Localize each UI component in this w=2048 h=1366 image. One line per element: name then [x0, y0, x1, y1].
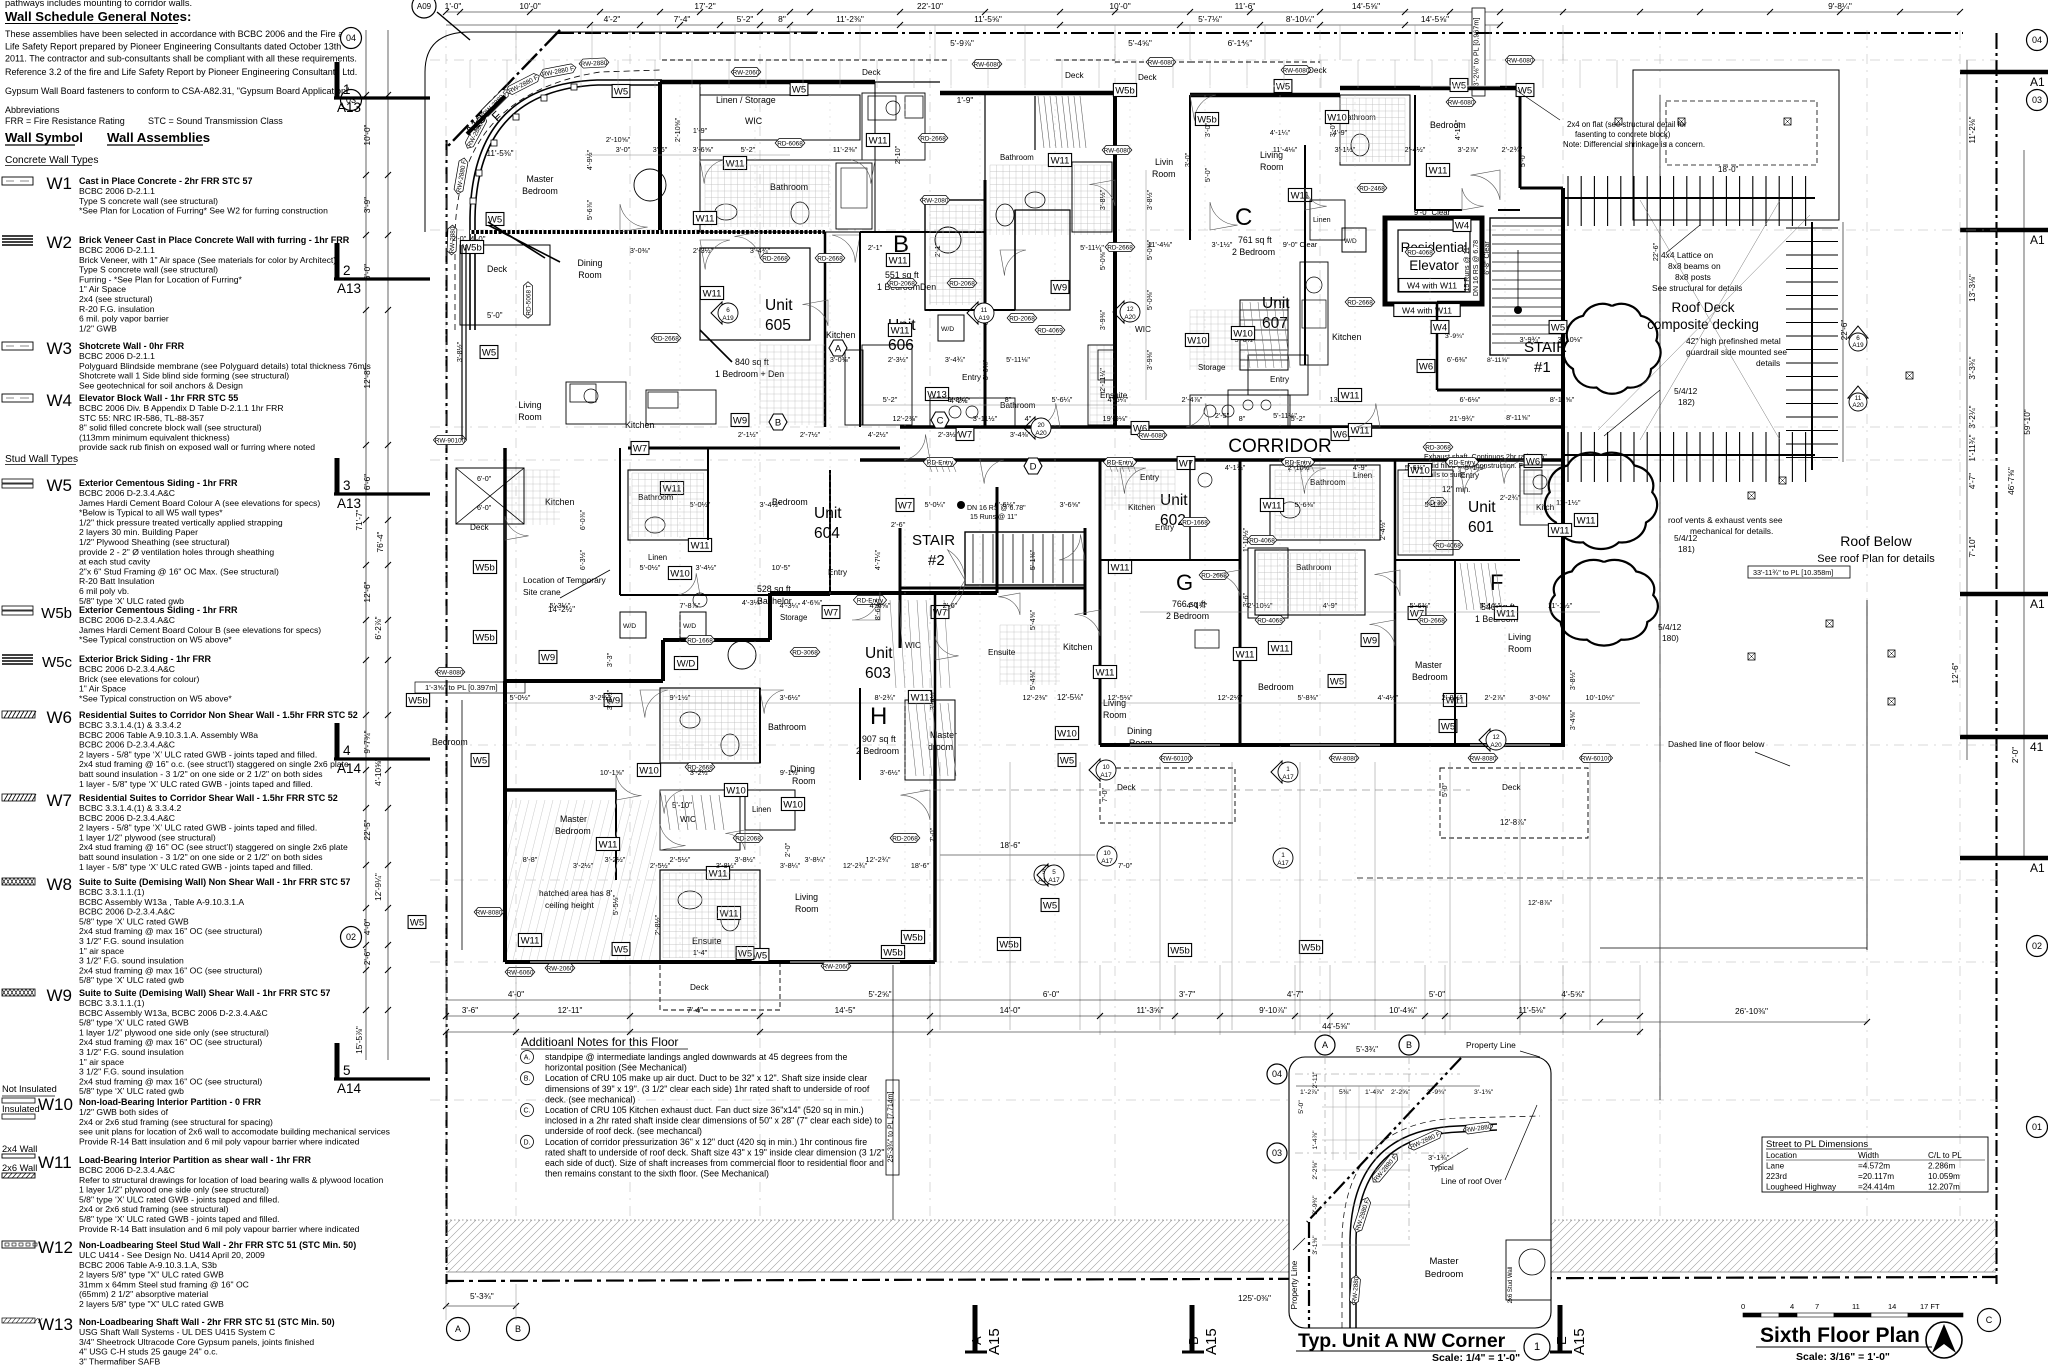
svg-text:2'-3½": 2'-3½"	[938, 430, 959, 439]
svg-text:R-20 F.G. insulation: R-20 F.G. insulation	[79, 304, 155, 314]
section marker 2/A13 left	[334, 243, 430, 296]
wall type W6	[2, 711, 36, 718]
svg-text:2x4 stud framing @ max 16" OC: 2x4 stud framing @ max 16" OC (see struc…	[79, 1076, 262, 1086]
svg-text:10.059m: 10.059m	[1928, 1172, 1960, 1181]
svg-text:BCBC 2006 D-2.3.4.A&C: BCBC 2006 D-2.3.4.A&C	[79, 740, 175, 750]
svg-text:W7: W7	[1179, 458, 1193, 469]
svg-text:W5: W5	[753, 950, 767, 961]
svg-text:RW-8080: RW-8080	[1470, 755, 1497, 762]
svg-text:A17: A17	[1048, 877, 1060, 884]
street to PL dimensions table	[1762, 1137, 1988, 1192]
svg-text:4'-2½": 4'-2½"	[950, 396, 971, 405]
svg-text:W11: W11	[1263, 500, 1282, 511]
svg-text:fasenting to concrete block): fasenting to concrete block)	[1575, 130, 1671, 139]
svg-text:Additioanl Notes for this Floo: Additioanl Notes for this Floor	[521, 1035, 678, 1049]
extra W boxes round 2	[693, 212, 716, 225]
svg-text:W10: W10	[783, 799, 803, 810]
svg-text:W10: W10	[1327, 112, 1347, 123]
svg-text:1'-3⅝" to PL [0.397m]: 1'-3⅝" to PL [0.397m]	[425, 683, 498, 692]
svg-text:W10: W10	[639, 765, 659, 776]
svg-text:B.: B.	[524, 1076, 531, 1083]
svg-text:Lougheed Highway: Lougheed Highway	[1766, 1183, 1837, 1192]
unit 603 stepped walls	[504, 679, 663, 683]
svg-text:5'-4⅝": 5'-4⅝"	[1028, 609, 1037, 630]
section marker 1/A13 left	[334, 62, 430, 115]
bottom witness lines	[445, 965, 447, 1035]
linen/storage walls	[658, 82, 662, 232]
closet hatch lines WIC	[1038, 96, 1044, 148]
svg-text:Non-Loadbearing Shaft Wall - 2: Non-Loadbearing Shaft Wall - 2hr FRR STC…	[79, 1317, 335, 1327]
svg-text:2 Bedroom: 2 Bedroom	[856, 746, 899, 756]
svg-text:Not Insulated: Not Insulated	[2, 1084, 57, 1094]
svg-text:2'-3½": 2'-3½"	[693, 246, 714, 255]
scale bar	[1743, 1313, 1761, 1317]
svg-text:BCBC 2006 Table A-9.10.3.1.A,: BCBC 2006 Table A-9.10.3.1.A, S3b	[79, 1260, 217, 1270]
svg-text:10'-5": 10'-5"	[772, 563, 791, 572]
svg-text:A: A	[455, 1324, 461, 1334]
svg-text:BCBC 2006 D-2.3.4.A&C: BCBC 2006 D-2.3.4.A&C	[79, 615, 175, 625]
svg-text:7'-8⅞": 7'-8⅞"	[680, 601, 701, 610]
svg-text:5'-0": 5'-0"	[1518, 152, 1527, 167]
svg-text:1 layer 1/2" plywood one side: 1 layer 1/2" plywood one side only (see …	[79, 1185, 269, 1195]
svg-text:22'-10": 22'-10"	[917, 1, 943, 11]
svg-text:W10: W10	[1057, 728, 1077, 739]
detail dashed roof line	[1342, 1116, 1540, 1328]
svg-text:W10: W10	[726, 785, 746, 796]
svg-text:6'-6⅜": 6'-6⅜"	[1447, 355, 1468, 364]
svg-text:W/D: W/D	[941, 326, 954, 333]
svg-text:6 mil. poly vapor barrier: 6 mil. poly vapor barrier	[79, 314, 169, 324]
svg-text:Entry: Entry	[1460, 471, 1480, 480]
grid bubble 01 right	[2027, 1117, 2048, 1138]
svg-text:A15: A15	[986, 1328, 1003, 1355]
svg-text:Bedroom: Bedroom	[1258, 682, 1294, 692]
bottom dimension lines	[446, 999, 1640, 1001]
svg-text:15 Runs @ 11": 15 Runs @ 11"	[1464, 244, 1471, 291]
svg-text:A: A	[969, 1336, 984, 1345]
svg-text:Kitchen: Kitchen	[545, 497, 574, 507]
svg-text:A1: A1	[2030, 597, 2045, 611]
svg-text:22'-6": 22'-6"	[1840, 320, 1849, 341]
svg-text:A13: A13	[337, 100, 361, 115]
ensuite lower	[660, 870, 760, 962]
svg-text:RD-4068: RD-4068	[1249, 537, 1275, 544]
svg-text:RD-2068: RD-2068	[1009, 315, 1035, 322]
svg-text:12'-2¾": 12'-2¾"	[866, 855, 891, 864]
svg-text:Deck: Deck	[1502, 783, 1522, 792]
svg-text:Non-load-Bearing Interior Part: Non-load-Bearing Interior Partition - 0 …	[79, 1097, 262, 1107]
svg-text:5/8" type ‘X’ ULC rated gwb: 5/8" type ‘X’ ULC rated gwb	[79, 975, 184, 985]
svg-text:STC = Sound Transmission Class: STC = Sound Transmission Class	[148, 116, 283, 126]
svg-text:W4: W4	[1433, 322, 1447, 333]
note C.	[521, 1104, 534, 1117]
unit C kitchen counter strip	[1300, 262, 1328, 365]
wall type W5	[2, 479, 33, 488]
svg-text:A20: A20	[1035, 430, 1047, 437]
svg-text:RD-2668: RD-2668	[1107, 244, 1133, 251]
svg-text:RW-6080: RW-6080	[1148, 59, 1175, 66]
svg-text:Non-Loadbearing Steel Stud Wal: Non-Loadbearing Steel Stud Wall - 2hr FR…	[79, 1240, 356, 1250]
svg-text:3'-8½": 3'-8½"	[1098, 189, 1107, 210]
svg-text:C: C	[1986, 1315, 1993, 1325]
stair 2	[965, 532, 1085, 585]
grid bubble 02 left	[341, 927, 362, 948]
svg-text:A13: A13	[337, 281, 361, 296]
svg-text:RW-6080: RW-6080	[1507, 57, 1534, 64]
svg-text:2'-11": 2'-11"	[1312, 1071, 1319, 1088]
wall type W5c	[2, 655, 33, 664]
svg-text:BCBC Assembly W13a , Table A-9: BCBC Assembly W13a , Table A-9.10.3.1.A	[79, 897, 244, 907]
svg-text:RW-6060: RW-6060	[507, 969, 534, 976]
svg-text:7'-10": 7'-10"	[1968, 536, 1977, 557]
svg-text:W11: W11	[1111, 562, 1130, 573]
svg-text:Entry: Entry	[1140, 473, 1160, 482]
svg-text:4'-2": 4'-2"	[604, 14, 621, 24]
svg-text:6'-6⅛": 6'-6⅛"	[1460, 395, 1481, 404]
svg-text:3'-1⅜": 3'-1⅜"	[1312, 1235, 1319, 1255]
svg-text:1" air space: 1" air space	[79, 946, 124, 956]
svg-text:9'-8¼": 9'-8¼"	[1828, 1, 1852, 11]
svg-text:W11: W11	[1096, 667, 1115, 678]
svg-text:WIC: WIC	[745, 116, 763, 126]
svg-text:31mm x 64mm Steel stud framing: 31mm x 64mm Steel stud framing @ 16" OC	[79, 1279, 249, 1289]
svg-text:Exterior Cementous Siding - 1h: Exterior Cementous Siding - 1hr FRR	[79, 478, 238, 488]
svg-text:W11: W11	[38, 1153, 72, 1172]
svg-text:W5: W5	[792, 84, 806, 95]
wic lower	[660, 790, 740, 850]
svg-text:(113mm minimum equivalent thic: (113mm minimum equivalent thickness)	[79, 432, 230, 442]
svg-text:3/4" Sheetrock Ultracode Core: 3/4" Sheetrock Ultracode Core Gypsum pan…	[79, 1337, 314, 1347]
svg-text:RW-6080: RW-6080	[1139, 432, 1166, 439]
svg-text:3 1/2" F.G. sound insulation: 3 1/2" F.G. sound insulation	[79, 1047, 184, 1057]
wall type W8	[2, 878, 35, 885]
svg-text:RW-90100: RW-90100	[435, 437, 466, 444]
svg-text:Provide R-14 Batt insulation a: Provide R-14 Batt insulation and 6 mil p…	[79, 1136, 360, 1146]
svg-text:W5b: W5b	[1301, 942, 1321, 953]
leader line dining	[488, 225, 560, 262]
svg-text:Dining: Dining	[578, 258, 603, 268]
svg-text:6'-0": 6'-0"	[477, 503, 492, 512]
svg-text:W11: W11	[891, 325, 910, 336]
svg-text:RD-2668: RD-2668	[817, 255, 843, 262]
svg-text:A: A	[835, 344, 842, 355]
left dimension chain lines	[365, 30, 367, 1060]
svg-text:Wall Symbol: Wall Symbol	[5, 130, 83, 145]
svg-text:2x4 stud framing @ 16" OC (see: 2x4 stud framing @ 16" OC (see struct’l)…	[79, 842, 348, 852]
svg-text:14'-0": 14'-0"	[1000, 1006, 1021, 1015]
svg-text:RD-4069: RD-4069	[1037, 327, 1063, 334]
detail rounded rect outline	[1289, 1057, 1551, 1328]
wall mid horizontal units row1	[860, 231, 985, 233]
svg-text:4'-10⅝": 4'-10⅝"	[374, 758, 383, 786]
unit 603 bathroom	[660, 688, 760, 763]
svg-text:5'-6¼": 5'-6¼"	[1052, 395, 1073, 404]
svg-text:10'-0": 10'-0"	[1109, 1, 1130, 11]
svg-text:4'-4½": 4'-4½"	[1378, 693, 1399, 702]
svg-text:Living: Living	[795, 892, 818, 902]
svg-text:A20: A20	[1124, 314, 1136, 321]
svg-text:R-20 Batt Insulation: R-20 Batt Insulation	[79, 576, 155, 586]
svg-text:A1: A1	[2030, 75, 2045, 89]
svg-text:6: 6	[1856, 335, 1860, 342]
deck circle markers right	[1848, 326, 1868, 351]
svg-text:3'-0": 3'-0"	[1183, 152, 1192, 167]
hatched 8ft ceiling area	[465, 800, 721, 960]
svg-text:12'-5⅛": 12'-5⅛"	[1057, 693, 1084, 702]
svg-text:W11: W11	[709, 868, 728, 879]
svg-text:4" USG C-H studs 25 gauge 24": 4" USG C-H studs 25 gauge 24" o.c.	[79, 1347, 218, 1357]
svg-text:RW-8080: RW-8080	[476, 909, 503, 916]
svg-text:3'-8½": 3'-8½"	[455, 341, 464, 362]
svg-text:W9: W9	[733, 415, 747, 426]
svg-text:2'-8½": 2'-8½"	[653, 914, 662, 935]
section hex letter markers	[829, 340, 847, 356]
svg-text:6'-6": 6'-6"	[363, 474, 372, 490]
svg-text:840 sq ft: 840 sq ft	[735, 357, 769, 367]
svg-text:2 layers 5/8" type "X" ULC rat: 2 layers 5/8" type "X" ULC rated GWB	[79, 1299, 224, 1309]
svg-text:8'-6½": 8'-6½"	[873, 599, 882, 620]
svg-text:5⅜": 5⅜"	[1339, 1089, 1351, 1096]
svg-text:W6: W6	[1333, 429, 1347, 440]
svg-text:18'-6": 18'-6"	[1000, 841, 1021, 850]
svg-text:4'-9": 4'-9"	[1333, 128, 1348, 137]
kitchen B counters	[845, 350, 863, 425]
svg-text:8": 8"	[1005, 395, 1012, 404]
svg-text:4'-7": 4'-7"	[1968, 473, 1977, 489]
svg-text:BCBC 3.3.1.1.(1): BCBC 3.3.1.1.(1)	[79, 887, 145, 897]
svg-text:2: 2	[343, 263, 351, 278]
svg-text:Gypsum Wall Board fasteners to: Gypsum Wall Board fasteners to conform t…	[5, 86, 349, 96]
svg-text:A17: A17	[1100, 772, 1112, 779]
svg-text:5'-3¾": 5'-3¾"	[470, 1291, 494, 1301]
svg-text:Roof Deck: Roof Deck	[1671, 300, 1734, 315]
wall type W9	[2, 989, 35, 996]
svg-text:6 mil poly vb.: 6 mil poly vb.	[79, 586, 129, 596]
svg-text:RD-2668: RD-2668	[653, 335, 679, 342]
svg-text:7'-4": 7'-4"	[674, 14, 691, 24]
svg-text:44'-5⅝": 44'-5⅝"	[1322, 1022, 1350, 1031]
svg-text:Exterior Brick Siding - 1hr FR: Exterior Brick Siding - 1hr FRR	[79, 654, 212, 664]
svg-text:RW-6080: RW-6080	[1448, 99, 1475, 106]
svg-text:4'-1¾": 4'-1¾"	[1187, 601, 1208, 610]
svg-text:59'-10": 59'-10"	[2023, 409, 2032, 435]
svg-text:761 sq ft: 761 sq ft	[1238, 235, 1272, 245]
svg-text:W5: W5	[410, 917, 424, 928]
svg-text:W3: W3	[47, 339, 73, 358]
svg-text:RD-2668: RD-2668	[1419, 617, 1445, 624]
svg-text:W5: W5	[1043, 900, 1057, 911]
svg-text:2'-7½": 2'-7½"	[800, 430, 821, 439]
svg-text:Kitchen: Kitchen	[1128, 503, 1156, 512]
svg-text:3'-9⅜": 3'-9⅜"	[1145, 349, 1154, 370]
svg-text:deck. (see mechanical): deck. (see mechanical)	[545, 1094, 636, 1104]
svg-text:RW-6080: RW-6080	[1104, 147, 1131, 154]
svg-text:Reference 3.2 of the fire and: Reference 3.2 of the fire and Life Safet…	[5, 67, 357, 77]
detail property line vertical	[1308, 1222, 1310, 1328]
svg-text:batt sound insulation - 3 1/2": batt sound insulation - 3 1/2" on one si…	[79, 852, 323, 862]
svg-text:2'-4⅞": 2'-4⅞"	[1182, 395, 1203, 404]
svg-text:1'-11¾": 1'-11¾"	[1968, 434, 1977, 461]
svg-text:12'-2⅛": 12'-2⅛"	[1218, 693, 1243, 702]
svg-text:STC 55: NRC IR-586, TL-88-357: STC 55: NRC IR-586, TL-88-357	[79, 413, 204, 423]
svg-text:76'-4": 76'-4"	[376, 531, 385, 552]
svg-text:Suite to Suite (Demising Wall): Suite to Suite (Demising Wall) Shear Wal…	[79, 988, 330, 998]
detail number circle	[1524, 1334, 1550, 1360]
property line top-left diagonal	[447, 30, 560, 147]
svg-text:RD-5068 T: RD-5068 T	[525, 284, 532, 315]
svg-text:8": 8"	[1239, 414, 1246, 423]
svg-text:2x4 Wall: 2x4 Wall	[2, 1144, 37, 1154]
svg-text:A: A	[1322, 1040, 1328, 1050]
svg-text:STAIR: STAIR	[912, 532, 955, 549]
svg-text:12'-9¼": 12'-9¼"	[374, 873, 383, 901]
svg-text:606: 606	[888, 337, 914, 354]
svg-text:3'-1½": 3'-1½"	[1335, 145, 1356, 154]
svg-text:5'-1⅞": 5'-1⅞"	[1480, 601, 1501, 610]
svg-text:composite decking: composite decking	[1647, 317, 1759, 332]
svg-text:5'-4⅝": 5'-4⅝"	[1128, 38, 1152, 48]
svg-text:See geotechnical for soil anch: See geotechnical for soil anchors & Desi…	[79, 380, 243, 390]
svg-text:RW-2060: RW-2060	[547, 965, 574, 972]
top dimension lines	[446, 11, 1960, 13]
svg-text:RW-2060: RW-2060	[733, 69, 760, 76]
svg-text:2011. The contractor and sub-c: 2011. The contractor and sub-consultants…	[5, 54, 357, 64]
svg-text:5'-2⅝": 5'-2⅝"	[868, 990, 891, 999]
small vent squares	[1615, 118, 1622, 125]
corridor top wall	[900, 425, 1563, 429]
svg-text:10'-0": 10'-0"	[519, 1, 540, 11]
svg-text:rated shaft to underside of ro: rated shaft to underside of roof deck. S…	[545, 1147, 884, 1157]
svg-text:Linen / Storage: Linen / Storage	[716, 95, 776, 105]
svg-text:8'-10¼": 8'-10¼"	[1286, 14, 1314, 24]
svg-text:10: 10	[1103, 850, 1111, 857]
svg-text:Scale: 1/4" = 1'-0": Scale: 1/4" = 1'-0"	[1432, 1352, 1520, 1364]
deck rail dashed top unit B	[830, 59, 950, 61]
svg-text:Elevator Block Wall - 1hr FRR: Elevator Block Wall - 1hr FRR STC 55	[79, 393, 238, 403]
svg-text:7'-0": 7'-0"	[1102, 788, 1109, 802]
svg-text:(65mm) 2 1/2" absorptive mater: (65mm) 2 1/2" absorptive material	[79, 1289, 208, 1299]
wall type W13	[2, 1318, 35, 1323]
svg-text:1 layer 1/2" plywood (see stru: 1 layer 1/2" plywood (see structural)	[79, 832, 216, 842]
extra walls unit 601	[1395, 559, 1520, 561]
svg-text:Load-Bearing Interior Partitio: Load-Bearing Interior Partition as shear…	[79, 1155, 312, 1165]
svg-text:3'-6⅝": 3'-6⅝"	[1060, 500, 1081, 509]
svg-text:3'-6½": 3'-6½"	[880, 768, 901, 777]
svg-text:3: 3	[343, 478, 351, 493]
svg-text:W6: W6	[1419, 361, 1433, 372]
svg-text:3 1/2" F.G. sound insulation: 3 1/2" F.G. sound insulation	[79, 936, 184, 946]
curved window wall NW corner	[470, 80, 662, 330]
svg-text:14'-5": 14'-5"	[835, 1006, 856, 1015]
svg-text:5'-2": 5'-2"	[741, 145, 756, 154]
svg-text:5'-6⅜": 5'-6⅜"	[1405, 463, 1426, 472]
extra walls unit C	[1304, 145, 1306, 365]
svg-text:RW-6080: RW-6080	[1283, 67, 1310, 74]
svg-text:BCBC 2006 Table A.9.10.3.1.A.: BCBC 2006 Table A.9.10.3.1.A. Assembly W…	[79, 730, 258, 740]
svg-text:BCBC 2006 D-2.3.4.A&C: BCBC 2006 D-2.3.4.A&C	[79, 907, 175, 917]
building face dashed NW curve	[455, 70, 660, 330]
small sink circles	[886, 101, 900, 115]
svg-text:Abbreviations: Abbreviations	[5, 105, 60, 115]
svg-text:2'-0": 2'-0"	[783, 842, 792, 857]
svg-text:10'-1⅝": 10'-1⅝"	[600, 768, 625, 777]
svg-text:11'-2⅜": 11'-2⅜"	[836, 14, 864, 24]
extra walls unit 604	[619, 448, 621, 470]
stair1 lower walls	[1437, 301, 1482, 304]
svg-text:3'-10⅛": 3'-10⅛"	[1558, 335, 1583, 344]
svg-text:125'-0⅜": 125'-0⅜"	[1238, 1293, 1271, 1303]
svg-text:droom: droom	[928, 742, 953, 752]
svg-text:17'-2": 17'-2"	[694, 1, 715, 11]
svg-text:3'-3": 3'-3"	[605, 652, 614, 667]
svg-text:3'-6½": 3'-6½"	[780, 693, 801, 702]
svg-text:C.: C.	[524, 1108, 531, 1115]
svg-text:Linen: Linen	[1353, 471, 1372, 480]
svg-text:3'-2½": 3'-2½"	[605, 855, 626, 864]
svg-text:Type S concrete wall (see stru: Type S concrete wall (see structural)	[79, 196, 218, 206]
svg-text:5'-5½": 5'-5½"	[611, 894, 620, 915]
unit B bath cluster	[990, 165, 1110, 235]
svg-text:12'-8⅞": 12'-8⅞"	[1500, 818, 1527, 827]
svg-text:5'-8⅜": 5'-8⅜"	[1298, 693, 1319, 702]
elevator shaft	[1385, 218, 1482, 304]
svg-text:A19: A19	[722, 315, 734, 322]
unit 604 walls	[503, 448, 507, 681]
svg-text:2x4 stud framing @ max 16" OC: 2x4 stud framing @ max 16" OC (see struc…	[79, 926, 262, 936]
svg-text:Provide R-14 Batt insulation a: Provide R-14 Batt insulation and 6 mil p…	[79, 1224, 360, 1234]
svg-text:W5: W5	[473, 755, 487, 766]
svg-text:1 layer - 5/8" type ‘X’ ULC ra: 1 layer - 5/8" type ‘X’ ULC rated GWB - …	[79, 862, 313, 872]
svg-text:Furring - *See Plan for Locati: Furring - *See Plan for Location of Furr…	[79, 274, 243, 284]
svg-text:Unit: Unit	[1468, 499, 1496, 516]
svg-text:22'-6": 22'-6"	[1651, 242, 1660, 261]
svg-text:Exterior Cementous Siding - 1h: Exterior Cementous Siding - 1hr FRR	[79, 605, 238, 615]
svg-text:inclosed in a 2hr rated shaft: inclosed in a 2hr rated shaft inside cle…	[545, 1116, 882, 1126]
grid bubble A09 top left	[412, 0, 436, 18]
svg-text:Deck: Deck	[690, 983, 710, 992]
svg-text:11'-6": 11'-6"	[1235, 1, 1256, 11]
svg-text:W5b: W5b	[1115, 85, 1135, 96]
svg-text:Location: Location	[1766, 1151, 1797, 1160]
svg-text:25'-3¾" to PL [7.714m]: 25'-3¾" to PL [7.714m]	[888, 1092, 895, 1163]
grid bubble C bottom right	[1978, 1309, 2001, 1332]
svg-text:4'-9": 4'-9"	[1323, 601, 1338, 610]
svg-text:W5: W5	[1060, 755, 1074, 766]
svg-text:5'-1⅞": 5'-1⅞"	[1465, 463, 1486, 472]
svg-text:2 layers - 5/8" type ‘X’ ULC r: 2 layers - 5/8" type ‘X’ ULC rated GWB -…	[79, 823, 317, 833]
svg-text:11'-5⅛": 11'-5⅛"	[1518, 1006, 1545, 1015]
tiles bathrooms extra	[705, 165, 830, 227]
svg-text:Ensuite: Ensuite	[988, 648, 1016, 657]
svg-text:Concrete Wall Types: Concrete Wall Types	[5, 155, 98, 166]
svg-text:4'-3¼": 4'-3¼"	[742, 598, 763, 607]
svg-text:W11: W11	[869, 135, 888, 146]
svg-text:horizontal position (See Mecha: horizontal position (See Mechanical)	[545, 1063, 687, 1073]
window wall left edge unit 605	[461, 245, 463, 440]
svg-text:11: 11	[1852, 1302, 1860, 1311]
svg-text:2x4 stud framing @ max 16" OC: 2x4 stud framing @ max 16" OC (see struc…	[79, 965, 262, 975]
svg-text:Deck: Deck	[1117, 783, 1137, 792]
wall vertical unit B left	[1113, 93, 1117, 427]
detail window wall arc	[1350, 1124, 1497, 1328]
svg-text:03: 03	[1272, 1148, 1282, 1158]
svg-text:8'-11⅝": 8'-11⅝"	[1487, 357, 1510, 364]
svg-text:3'-2½": 3'-2½"	[573, 861, 594, 870]
svg-text:2 Bedroom: 2 Bedroom	[1166, 611, 1209, 621]
svg-text:2'-2¾": 2'-2¾"	[1500, 493, 1521, 502]
svg-text:W5: W5	[1518, 85, 1532, 96]
svg-text:then remains constant to the s: then remains constant to the sixth floor…	[545, 1169, 769, 1179]
